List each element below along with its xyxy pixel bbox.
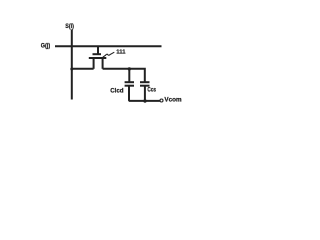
svg-text:Vcom: Vcom	[164, 97, 181, 104]
svg-text:G(j): G(j)	[41, 42, 50, 49]
svg-text:111: 111	[116, 50, 126, 56]
svg-text:Ccs: Ccs	[147, 86, 156, 93]
svg-text:Clcd: Clcd	[110, 88, 123, 95]
svg-text:S(i): S(i)	[65, 23, 74, 30]
